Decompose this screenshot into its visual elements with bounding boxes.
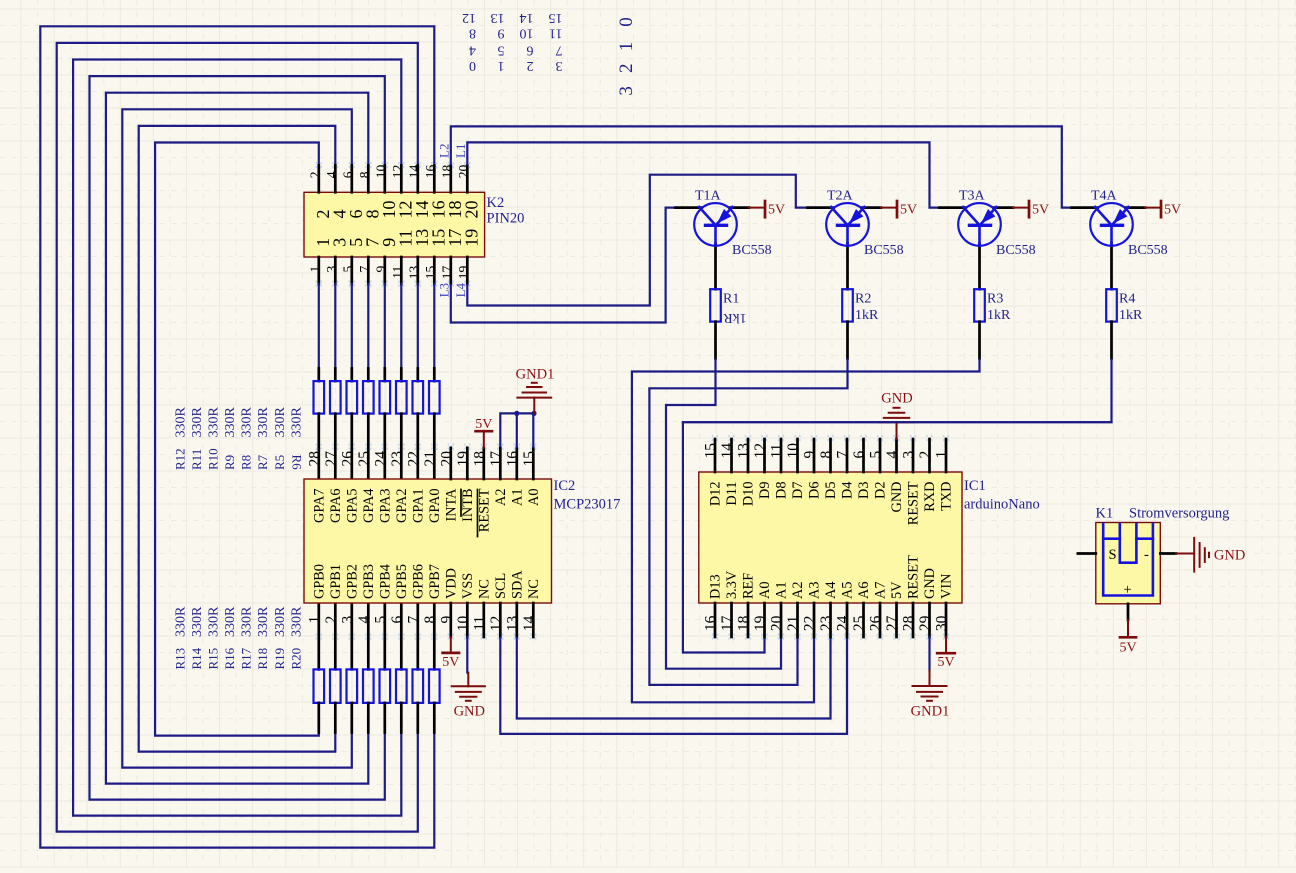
svg-text:14: 14	[520, 10, 534, 25]
svg-text:330R: 330R	[256, 407, 271, 438]
svg-text:GPB6: GPB6	[410, 564, 426, 599]
IC2 top pins 28..15	[316, 444, 535, 480]
svg-text:SDA: SDA	[509, 570, 525, 599]
svg-text:T2A: T2A	[827, 189, 854, 204]
resistor (top row 4) 330R	[363, 368, 374, 479]
svg-text:1: 1	[307, 266, 322, 273]
svg-text:R17: R17	[239, 647, 254, 669]
wire K2 pin 5 to resistor	[351, 284, 353, 368]
svg-text:17: 17	[719, 615, 736, 631]
IC2 top pin numbers	[306, 451, 538, 467]
svg-text:5V: 5V	[768, 203, 785, 218]
svg-text:13: 13	[736, 443, 753, 459]
resistor R3 1kR	[974, 289, 985, 358]
connector K1 power jack	[1078, 523, 1176, 621]
svg-text:2: 2	[616, 64, 637, 74]
svg-text:BC558: BC558	[1128, 243, 1168, 258]
svg-text:6: 6	[851, 451, 868, 459]
svg-text:28: 28	[306, 451, 323, 467]
svg-text:GPB5: GPB5	[394, 564, 410, 599]
svg-text:VIN: VIN	[939, 574, 955, 599]
svg-text:5V: 5V	[1032, 203, 1049, 218]
value 1kR of R1 (rotated 180)	[723, 310, 747, 325]
svg-text:9: 9	[438, 616, 455, 624]
svg-text:14: 14	[406, 165, 421, 179]
label R20 330R	[288, 606, 304, 670]
svg-text:8: 8	[422, 616, 439, 624]
svg-text:5V: 5V	[1119, 641, 1136, 656]
svg-text:T3A: T3A	[959, 189, 986, 204]
svg-text:NC: NC	[476, 579, 492, 599]
svg-text:24: 24	[372, 451, 389, 467]
svg-text:A3: A3	[807, 582, 823, 599]
IC1 top pin numbers	[703, 443, 951, 459]
svg-text:D4: D4	[840, 482, 856, 499]
svg-text:330R: 330R	[223, 407, 238, 438]
svg-text:27: 27	[884, 615, 901, 631]
svg-text:BC558: BC558	[864, 243, 904, 258]
svg-text:INTA: INTA	[443, 488, 459, 522]
wire IC2 A2/A1/A0 to GND1	[500, 413, 534, 447]
wire R4 to IC1 pin	[683, 359, 1112, 653]
svg-text:S: S	[1109, 547, 1117, 563]
resistor (top row 2) 330R	[330, 368, 341, 479]
svg-text:19: 19	[455, 451, 472, 467]
wire K2 pin 7 to resistor	[367, 284, 369, 368]
svg-text:GPA1: GPA1	[410, 489, 426, 523]
resistor R2 1kR	[842, 289, 853, 358]
svg-text:A1: A1	[774, 582, 790, 599]
svg-text:15: 15	[423, 266, 438, 280]
svg-text:20: 20	[769, 615, 786, 631]
IC1 bottom pins 16..30	[713, 603, 949, 641]
wire R3 to IC1 pin	[632, 359, 980, 703]
svg-text:5: 5	[498, 42, 505, 57]
5V supply at T4A emitter	[1145, 201, 1181, 218]
svg-text:330R: 330R	[240, 606, 255, 637]
svg-text:Stromversorgung: Stromversorgung	[1129, 506, 1229, 522]
connector K2 PIN20	[304, 162, 485, 288]
svg-text:GND1: GND1	[911, 704, 950, 720]
svg-text:R12: R12	[173, 448, 188, 470]
svg-text:GPB0: GPB0	[311, 564, 327, 599]
label R15 330R	[206, 606, 222, 670]
svg-text:20: 20	[456, 165, 471, 179]
svg-text:13: 13	[491, 10, 505, 25]
svg-text:D3: D3	[856, 482, 872, 499]
svg-text:330R: 330R	[240, 407, 255, 438]
svg-text:D6: D6	[807, 482, 823, 499]
svg-text:5V: 5V	[900, 203, 917, 218]
svg-text:4: 4	[324, 171, 339, 178]
svg-text:6: 6	[527, 42, 534, 57]
label R19 330R	[272, 606, 288, 670]
resistor R19 330R	[413, 603, 424, 733]
svg-text:R1: R1	[723, 292, 739, 307]
svg-text:R20: R20	[288, 648, 303, 670]
IC2 bottom pin names	[311, 564, 542, 599]
svg-text:5: 5	[868, 451, 885, 459]
svg-text:GPB4: GPB4	[377, 564, 393, 599]
svg-text:9: 9	[373, 266, 388, 273]
svg-text:IC1: IC1	[964, 478, 986, 494]
svg-text:5V: 5V	[1164, 203, 1181, 218]
svg-text:6: 6	[340, 171, 355, 178]
svg-text:GPB2: GPB2	[344, 564, 360, 599]
5V supply at T2A emitter	[881, 201, 917, 218]
svg-text:6: 6	[389, 616, 406, 624]
svg-text:16: 16	[423, 165, 438, 179]
svg-text:1kR: 1kR	[855, 308, 879, 323]
svg-text:10: 10	[373, 165, 388, 179]
svg-text:10: 10	[455, 616, 472, 632]
svg-text:R11: R11	[189, 449, 204, 470]
svg-text:7: 7	[357, 266, 372, 273]
resistor R17 330R	[380, 603, 391, 733]
label R1	[723, 292, 739, 307]
svg-text:TXD: TXD	[939, 482, 955, 511]
svg-text:R18: R18	[255, 648, 270, 670]
wire K2 pin 12 loop to bottom resistor column 6	[73, 60, 401, 816]
svg-text:3.3V: 3.3V	[724, 570, 740, 599]
ground GND1 below IC1 pin 29	[911, 637, 950, 720]
svg-text:330R: 330R	[207, 606, 222, 637]
svg-text:A7: A7	[873, 582, 889, 599]
wire K2 pin 13 to resistor	[417, 284, 419, 368]
svg-text:3: 3	[901, 451, 918, 459]
svg-text:BC558: BC558	[732, 243, 772, 258]
svg-text:GND: GND	[454, 704, 485, 720]
svg-text:18: 18	[439, 165, 454, 179]
svg-text:1: 1	[934, 451, 951, 459]
svg-text:D5: D5	[823, 482, 839, 499]
svg-text:15: 15	[703, 443, 720, 459]
IC U2: MCP23017 body	[304, 479, 552, 603]
label R12 330R	[173, 407, 189, 471]
svg-text:18: 18	[471, 451, 488, 467]
svg-text:30: 30	[934, 615, 951, 631]
svg-text:19: 19	[456, 266, 471, 280]
wire K2 pin 20 to T3 collector	[467, 142, 939, 207]
svg-text:D12: D12	[708, 482, 724, 507]
svg-text:INTB: INTB	[460, 489, 476, 522]
svg-text:12: 12	[390, 165, 405, 179]
svg-text:8: 8	[818, 451, 835, 459]
IC2 bottom pin numbers	[306, 616, 538, 632]
svg-text:SCL: SCL	[493, 573, 509, 599]
wire IC2 SCL pin12 to IC1 A5 pin24	[500, 637, 847, 734]
svg-text:R7: R7	[255, 454, 270, 470]
IC1 top pin names	[708, 481, 955, 525]
svg-text:A5: A5	[840, 582, 856, 599]
svg-text:12: 12	[488, 616, 505, 632]
svg-text:R16: R16	[222, 647, 237, 669]
svg-text:16: 16	[504, 451, 521, 467]
transistor T4A BC558	[1072, 203, 1146, 289]
svg-text:R10: R10	[206, 448, 221, 470]
transistor T2A BC558	[808, 203, 882, 289]
label R11 330R	[189, 407, 205, 471]
svg-text:19: 19	[752, 615, 769, 631]
label R2	[855, 292, 871, 307]
svg-text:D8: D8	[774, 482, 790, 499]
svg-text:9: 9	[802, 451, 819, 459]
svg-text:GPB3: GPB3	[361, 564, 377, 599]
svg-text:-: -	[1144, 547, 1149, 563]
label PIN20	[487, 211, 525, 227]
wire K2 pin 9 to resistor	[384, 284, 386, 368]
svg-text:17: 17	[488, 451, 505, 467]
svg-text:2: 2	[527, 58, 534, 73]
svg-text:RESET: RESET	[906, 481, 922, 525]
transistor T1A BC558	[676, 203, 750, 289]
svg-text:A0: A0	[757, 582, 773, 599]
label R14 330R	[189, 606, 205, 670]
svg-text:4: 4	[469, 42, 476, 57]
label R8 330R	[239, 407, 255, 471]
resistor (top row 8) 330R	[429, 368, 440, 479]
resistor R4 1kR	[1106, 289, 1117, 358]
svg-text:GND: GND	[922, 568, 938, 599]
wire K2 pin 8 loop to bottom resistor column 4	[106, 93, 368, 784]
svg-text:D13: D13	[708, 574, 724, 599]
svg-text:12: 12	[752, 443, 769, 459]
svg-text:5V: 5V	[889, 581, 905, 599]
svg-text:15: 15	[549, 10, 563, 25]
ground GND below IC2 VSS pin 10	[452, 637, 485, 720]
svg-text:7: 7	[405, 616, 422, 624]
svg-text:13: 13	[504, 616, 521, 632]
svg-text:0: 0	[616, 17, 637, 27]
svg-text:GPA5: GPA5	[344, 489, 360, 523]
svg-text:A1: A1	[509, 489, 525, 506]
svg-text:A4: A4	[823, 582, 839, 599]
5V supply at T1A emitter	[749, 201, 785, 218]
svg-text:K1: K1	[1096, 506, 1114, 522]
svg-text:21: 21	[422, 451, 439, 467]
svg-text:1kR: 1kR	[1119, 308, 1143, 323]
svg-text:L2: L2	[436, 144, 451, 158]
svg-text:10: 10	[520, 26, 534, 41]
svg-text:330R: 330R	[223, 606, 238, 637]
net label L2	[436, 144, 451, 158]
svg-text:RESET: RESET	[906, 555, 922, 599]
label BC558 (T2A)	[864, 243, 904, 258]
svg-text:REF: REF	[741, 573, 757, 599]
svg-text:1kR: 1kR	[723, 310, 747, 325]
svg-text:330R: 330R	[289, 407, 304, 438]
IC1 top pins 15..1	[713, 435, 949, 472]
svg-text:3: 3	[324, 266, 339, 273]
svg-text:22: 22	[802, 616, 819, 632]
label T3A	[959, 189, 986, 204]
svg-text:arduinoNano: arduinoNano	[964, 497, 1040, 513]
svg-text:PIN20: PIN20	[487, 211, 525, 227]
svg-text:27: 27	[323, 451, 340, 467]
svg-text:R3: R3	[987, 292, 1003, 307]
svg-text:GPB1: GPB1	[328, 564, 344, 599]
svg-text:GPA7: GPA7	[311, 489, 327, 523]
svg-text:12: 12	[462, 10, 476, 25]
svg-text:R15: R15	[206, 648, 221, 670]
svg-text:R2: R2	[855, 292, 871, 307]
net labels column digits (rotated 90)	[616, 17, 637, 95]
wire K2 pin 2 loop to bottom resistor column 1	[155, 143, 319, 736]
label R6 330R	[289, 407, 304, 471]
wire R4 horizontal over GND	[683, 421, 1112, 423]
svg-text:L1: L1	[453, 144, 468, 158]
svg-text:D7: D7	[790, 482, 806, 499]
wire IC2 SDA pin13 to IC1 A4 pin23	[517, 637, 831, 719]
wire K2 pin 19 to T2 collector	[467, 175, 807, 306]
svg-text:7: 7	[556, 42, 563, 57]
IC1 bottom pin numbers	[703, 615, 951, 631]
svg-text:3: 3	[339, 616, 356, 624]
svg-text:22: 22	[405, 451, 422, 467]
value 1kR of R4	[1119, 308, 1143, 323]
resistor R13 330R	[314, 603, 325, 733]
svg-text:330R: 330R	[190, 407, 205, 438]
net label L4	[453, 282, 468, 297]
svg-text:R6: R6	[290, 455, 305, 471]
svg-text:5: 5	[340, 266, 355, 273]
svg-text:3: 3	[616, 86, 637, 96]
svg-text:23: 23	[818, 615, 835, 631]
svg-text:330R: 330R	[289, 606, 304, 637]
svg-text:13: 13	[406, 266, 421, 280]
wire R1 to IC1 pin	[666, 359, 781, 669]
5V supply at IC2 VDD pin 9	[442, 637, 459, 670]
svg-text:R14: R14	[189, 647, 204, 669]
svg-text:R4: R4	[1119, 292, 1135, 307]
svg-text:7: 7	[835, 451, 852, 459]
svg-text:D9: D9	[757, 482, 773, 499]
svg-text:26: 26	[339, 451, 356, 467]
svg-text:5V: 5V	[937, 655, 954, 670]
svg-text:1: 1	[306, 616, 323, 624]
svg-text:330R: 330R	[174, 407, 189, 438]
svg-text:11: 11	[390, 266, 405, 279]
svg-text:GPB7: GPB7	[427, 564, 443, 599]
svg-text:14: 14	[719, 443, 736, 459]
svg-text:VSS: VSS	[460, 573, 476, 599]
svg-text:2: 2	[307, 172, 322, 179]
junction at A1	[514, 411, 519, 416]
IC U1: arduinoNano body	[699, 472, 962, 603]
svg-text:9: 9	[498, 26, 505, 41]
svg-text:BC558: BC558	[996, 243, 1036, 258]
label MCP23017	[554, 497, 621, 513]
svg-text:330R: 330R	[207, 407, 222, 438]
wire K2 pin 15 to resistor	[433, 284, 435, 368]
svg-text:D10: D10	[741, 482, 757, 507]
svg-text:23: 23	[389, 451, 406, 467]
svg-text:L4: L4	[453, 282, 468, 297]
svg-text:4: 4	[884, 451, 901, 459]
svg-text:25: 25	[851, 615, 868, 631]
label K2	[487, 195, 505, 211]
svg-text:R5: R5	[272, 455, 287, 470]
svg-text:2: 2	[917, 451, 934, 459]
svg-text:R8: R8	[239, 455, 254, 470]
svg-text:330R: 330R	[256, 606, 271, 637]
resistor (top row 1) 330R	[314, 368, 325, 479]
svg-text:21: 21	[785, 616, 802, 632]
svg-text:0: 0	[469, 58, 476, 73]
wire K2 pin 17 to T1 collector	[451, 208, 676, 323]
IC2 bottom pins 1..14	[316, 603, 535, 641]
label IC1	[964, 478, 986, 494]
svg-text:8: 8	[357, 171, 372, 178]
svg-text:A2: A2	[493, 489, 509, 506]
resistor R14 330R	[330, 603, 341, 733]
5V supply at IC2 RESET pin 18	[475, 417, 492, 448]
svg-text:GPA6: GPA6	[328, 489, 344, 523]
IC1 bottom pin names	[708, 555, 955, 599]
wire R2 to IC1 pin	[649, 359, 847, 685]
net label L1	[453, 144, 468, 158]
svg-text:11: 11	[471, 616, 488, 631]
label Stromversorgung	[1129, 506, 1229, 522]
label R17 330R	[239, 606, 255, 670]
wire K2 pin 4 loop to bottom resistor column 2	[139, 126, 336, 752]
svg-text:NC: NC	[526, 579, 542, 599]
value 1kR of R2	[855, 308, 879, 323]
wire K2 pin 16 loop to bottom resistor column 8	[40, 26, 434, 847]
5V supply at IC1 VIN pin 30	[937, 637, 955, 670]
svg-text:10: 10	[785, 443, 802, 459]
svg-text:5V: 5V	[442, 655, 459, 670]
svg-text:19: 19	[461, 229, 481, 247]
label T4A	[1091, 189, 1118, 204]
svg-text:A0: A0	[526, 489, 542, 506]
svg-text:RXD: RXD	[922, 482, 938, 512]
svg-text:1: 1	[498, 58, 505, 73]
label R7 330R	[255, 407, 271, 471]
svg-text:GND: GND	[1214, 548, 1245, 564]
resistor (top row 5) 330R	[380, 368, 391, 479]
svg-text:330R: 330R	[273, 606, 288, 637]
ground GND above IC1 pin 4	[880, 391, 914, 440]
svg-text:16: 16	[703, 615, 720, 631]
wire K2 pin 3 to resistor	[334, 284, 336, 368]
label T2A	[827, 189, 854, 204]
svg-text:GND: GND	[889, 482, 905, 513]
svg-text:K2: K2	[487, 195, 505, 211]
label R4	[1119, 292, 1135, 307]
ground GND right of K1	[1176, 538, 1245, 572]
label R18 330R	[255, 606, 271, 670]
svg-text:VDD: VDD	[443, 568, 459, 599]
svg-text:RESET: RESET	[476, 488, 492, 532]
svg-text:D2: D2	[873, 482, 889, 499]
5V supply at T3A emitter	[1013, 201, 1049, 218]
svg-text:25: 25	[356, 451, 373, 467]
5V supply below K1	[1119, 620, 1136, 656]
svg-text:GPA3: GPA3	[377, 489, 393, 523]
resistor R20 330R	[429, 603, 440, 733]
svg-text:T1A: T1A	[695, 189, 722, 204]
label R5 330R	[272, 407, 288, 471]
svg-text:5V: 5V	[475, 417, 492, 432]
svg-text:14: 14	[521, 616, 538, 632]
svg-text:1: 1	[616, 42, 637, 52]
resistor (top row 7) 330R	[413, 368, 424, 479]
svg-text:GPA2: GPA2	[394, 489, 410, 523]
ground GND1 above IC2	[516, 367, 555, 414]
svg-text:15: 15	[521, 451, 538, 467]
svg-text:A6: A6	[856, 582, 872, 599]
